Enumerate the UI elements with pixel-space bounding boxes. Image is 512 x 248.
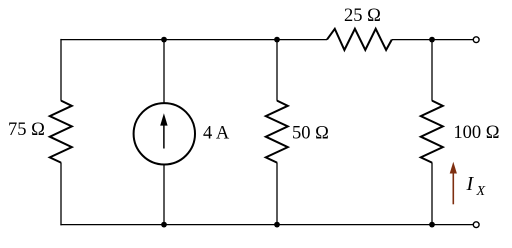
wire 100-ohm column bottom bbox=[431, 162, 433, 224]
resistor R4 100-ohm bbox=[421, 101, 443, 163]
current Ix arrow bbox=[450, 162, 457, 205]
terminal top open bbox=[473, 37, 479, 43]
node D bottom junction at source column bbox=[161, 222, 167, 228]
svg-text:I: I bbox=[466, 173, 475, 195]
node E bottom junction at 50-ohm column bbox=[274, 222, 280, 228]
resistor R2 50-ohm bbox=[266, 101, 288, 163]
wire left rail upper bbox=[60, 39, 62, 101]
wire current source bottom bbox=[163, 164, 165, 225]
wire current source top bbox=[163, 40, 165, 104]
resistor R1 75-ohm bbox=[50, 101, 72, 163]
svg-text:75 Ω: 75 Ω bbox=[8, 120, 45, 140]
wire top rail left segment bbox=[60, 39, 327, 41]
svg-text:100 Ω: 100 Ω bbox=[453, 123, 499, 143]
current source I1 4A circle bbox=[134, 103, 195, 164]
wire 50-ohm column bottom bbox=[276, 162, 278, 224]
wire 100-ohm column top bbox=[431, 40, 433, 101]
node F bottom junction at 100-ohm column bbox=[429, 222, 435, 228]
wire 50-ohm column top bbox=[276, 40, 278, 101]
svg-text:25 Ω: 25 Ω bbox=[344, 6, 381, 26]
current source arrow bbox=[160, 113, 167, 148]
label Ix bbox=[466, 173, 486, 199]
svg-text:50 Ω: 50 Ω bbox=[292, 124, 329, 144]
resistor R3 25-ohm bbox=[327, 29, 392, 50]
wire bottom rail bbox=[60, 224, 473, 226]
wire top rail right segment bbox=[392, 39, 473, 41]
svg-text:4 A: 4 A bbox=[203, 123, 230, 143]
node C top junction at 100-ohm column bbox=[429, 37, 435, 43]
svg-text:X: X bbox=[476, 184, 486, 199]
wire left rail lower bbox=[60, 162, 62, 225]
node B top junction at 50-ohm column bbox=[274, 37, 280, 43]
terminal bottom open bbox=[473, 222, 479, 228]
node A top junction at source column bbox=[161, 37, 167, 43]
